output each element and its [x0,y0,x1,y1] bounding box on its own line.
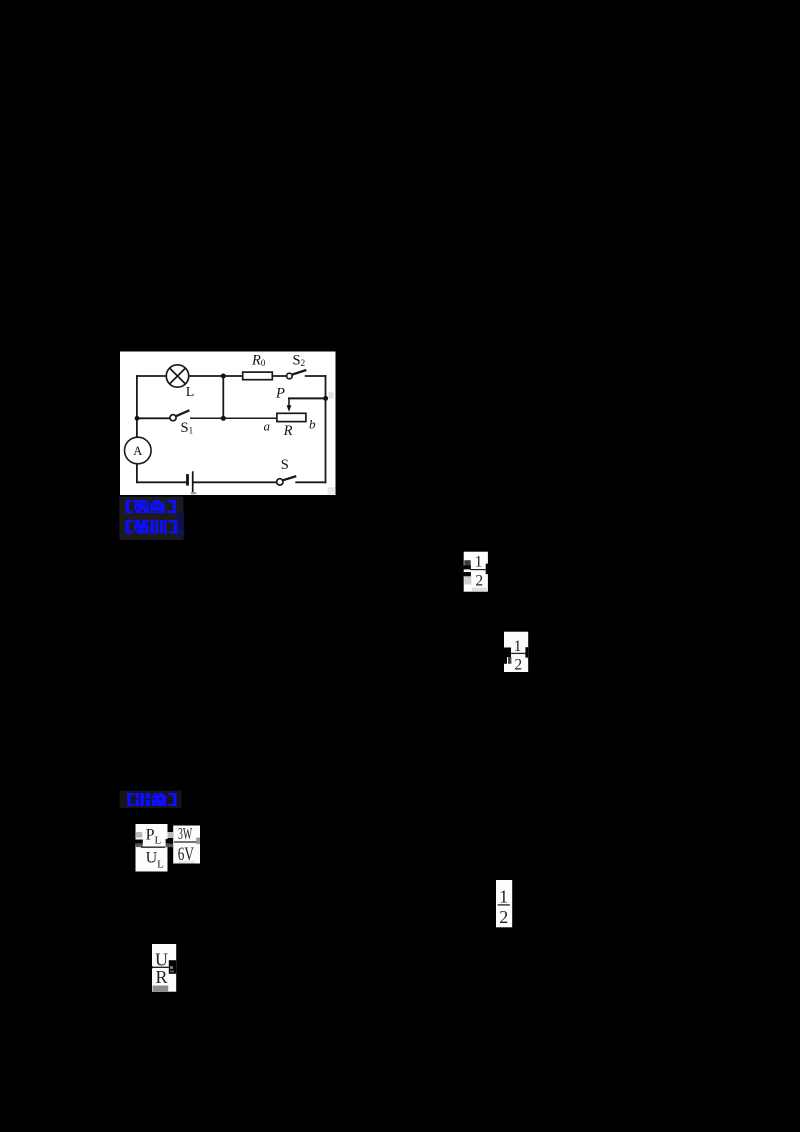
svg-text:P: P [275,385,285,401]
svg-text:a: a [264,418,271,433]
node junction on right wire (slider tap) [323,396,328,401]
black notch right [525,647,528,657]
svg-text:3W: 3W [178,824,192,843]
gray strip bottom [153,986,169,992]
rheostat slider P arrow [287,405,292,412]
svg-text:S: S [281,457,289,473]
switch S1 [170,410,190,421]
wire lamp to mid node [189,375,243,377]
svg-text:2: 2 [499,907,508,927]
fraction 1/2 (second) white patch [504,632,528,674]
battery cell: long thin positive plate [192,471,194,492]
battery smudge below [191,492,197,494]
equals sign between fractions [166,839,174,847]
faint gray square at panel bottom-right corner [327,487,334,494]
wire R0 to S2 [272,375,286,377]
resistor R0 [243,372,273,380]
faint navy block after 考点 line [177,512,184,519]
dark backing box behind blue heading 解答 [120,791,182,809]
dark backing box behind blue heading lines [120,497,184,541]
left tick [151,966,153,969]
ammeter A [125,437,152,464]
faint gray square right of slider tap node [328,392,333,399]
lamp L (circle with X) [166,365,188,387]
wire P drop to arrow [288,398,290,405]
wire after S2 to top-right corner [306,375,326,377]
wire left vertical below ammeter [136,464,138,482]
blue heading 【考点】 [126,500,177,513]
node junction on left wire [135,416,140,421]
svg-text:1: 1 [514,638,522,655]
equals fragment far left [134,840,143,844]
battery cell: short thick negative plate [186,474,189,486]
white panel background of circuit figure [120,352,336,496]
wire right vertical [325,376,327,482]
svg-text:1: 1 [499,887,508,907]
svg-text:2: 2 [514,656,522,673]
formula P_L/U_L patch [134,824,167,872]
svg-text:R: R [283,423,293,439]
svg-text:1: 1 [475,554,483,571]
wire S1 to rheostat terminal a [191,417,277,419]
svg-text:2: 2 [475,572,483,589]
wire P feed horizontal [289,397,326,399]
node junction at lamp/R0 top [221,374,226,379]
wire left vertical above ammeter [136,376,138,437]
svg-text:R: R [155,967,167,987]
node junction mid branch bottom [221,416,226,421]
svg-text:A: A [133,444,142,458]
equals sign fragment left [461,565,471,569]
blue heading 【分析】 [126,520,178,534]
wire top-left corner to lamp [137,375,166,377]
switch S2 [287,370,307,379]
wire mid vertical branch [222,376,224,418]
wire middle branch left segment [137,417,170,419]
faint navy block after 分析 line [178,521,184,530]
black notch left [504,648,511,664]
fraction 1/2 (first) white patch [461,552,488,592]
wire bottom left to battery [137,481,186,483]
fraction 1/2 (third) white patch [496,880,512,927]
formula U/R patch [151,944,177,992]
black fragment right edge [486,564,489,575]
formula 3W/6V patch [168,824,201,865]
wire battery to switch S [194,481,277,483]
black block right-middle [169,960,176,974]
wire after S to bottom-right corner [296,481,325,483]
svg-text:L: L [186,385,195,400]
switch S [277,476,297,485]
rheostat R (box) [277,413,306,421]
blue heading 【解答】 [127,793,176,806]
svg-text:b: b [309,416,316,431]
